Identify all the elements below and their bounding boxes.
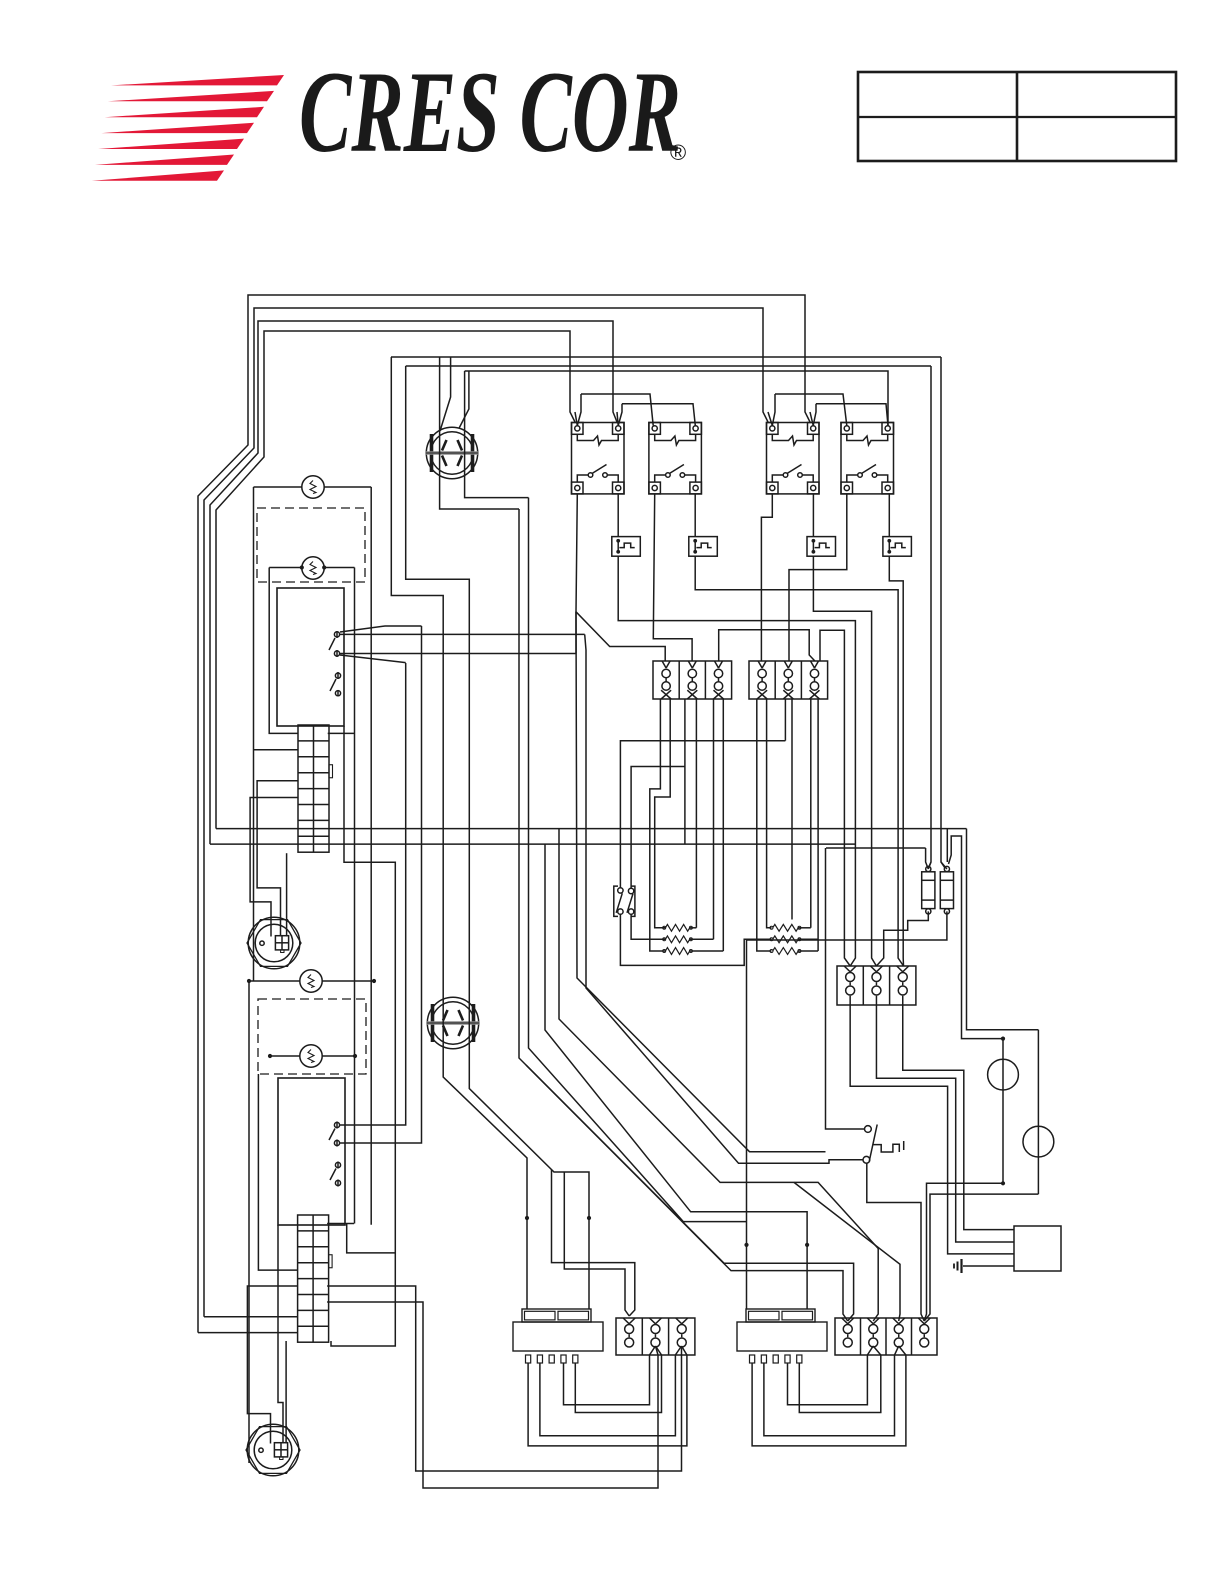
wire K2 right jogs — [327, 1223, 354, 1225]
wire SB1 bottom-left to TB1-1 — [576, 494, 665, 661]
switch block SB3 — [767, 423, 820, 494]
indicator light L4 — [300, 1045, 322, 1067]
wire diagonal D to heater2 right — [545, 844, 807, 1309]
wire SB3 right-bottom to HL3 — [812, 494, 814, 537]
wire SW1 bottom-right to R2 — [631, 914, 665, 939]
wire K2 to J2-1 — [247, 1286, 297, 1444]
relay stack K2 (lower) — [298, 1215, 329, 1342]
wire W6 right leg to fuse F1 — [928, 366, 931, 868]
wire W6 left leg through M2 to heater1 — [406, 366, 589, 1309]
wire K2 left stubs — [204, 1316, 298, 1318]
wire K1 bottom to J1-3 — [286, 853, 288, 936]
wire TB2-3 to TS1-1 — [820, 630, 850, 966]
wire TB1-3 to TB2-3 — [719, 630, 815, 661]
resistor R4 — [773, 924, 799, 931]
wire R6 right lead — [798, 950, 818, 952]
buzzer symbol — [963, 1265, 1014, 1267]
wire K1 row5 left stub to J1-1 — [250, 798, 298, 937]
wire SB2 right-bottom to HL2 — [694, 494, 696, 537]
thermostat oven1 contact 2 — [334, 651, 339, 656]
wire TB2-3 left tail — [810, 699, 812, 928]
door switch DS — [865, 1126, 872, 1133]
dashed control box oven1 — [257, 508, 365, 582]
wire TB1-3 left tail — [713, 699, 715, 939]
wire oven2 left side — [248, 981, 250, 1463]
wire R5 right lead — [798, 938, 818, 940]
indicator lamp P1 — [988, 1059, 1019, 1090]
wire TB2-1 right tail — [767, 699, 772, 928]
wire oven2 top line — [249, 980, 300, 982]
wire diagonal G to TS2b-1 — [526, 1065, 848, 1321]
wire cross vertical A — [340, 626, 422, 1143]
wire SB3-SB4 jumper top-right — [816, 404, 888, 426]
wire M1 top-right lead — [459, 371, 469, 429]
wire SB2 bottom-left to TB1-2 — [653, 494, 692, 661]
wire thermo1 c2 to vertical — [340, 655, 406, 663]
wire through P1 — [1002, 1039, 1004, 1184]
wire P1 bottom to TS2b-4 — [924, 1183, 1003, 1321]
wire H2 loop sq4 to TS2b-2 — [788, 1346, 874, 1405]
wire R4 right lead — [798, 927, 811, 929]
wire diagonal A to door switch top — [576, 612, 826, 1152]
resistor R3 — [665, 948, 689, 955]
thermostat body oven2 — [278, 1078, 345, 1225]
wire W5 right leg to fuse F2 — [941, 357, 945, 868]
wire oven1 right side — [370, 487, 372, 1225]
wire bus W4 — [216, 331, 575, 829]
thermostat oven2 contact 4 — [335, 1180, 340, 1185]
terminal strip TS2a — [616, 1318, 695, 1355]
wire H2 loop sq1 to TS2b-3 — [752, 1346, 906, 1446]
round connector J1 (upper) — [247, 920, 301, 967]
wire lamp P1 feed — [949, 836, 1004, 1039]
wire SB1 bottom-left tail — [575, 612, 577, 654]
wire R2 right lead — [690, 938, 714, 940]
wire SB4 right-bottom to HL4 — [888, 494, 890, 537]
fuse F1 — [922, 872, 935, 909]
wire diagonal F to TS2b-1 — [519, 509, 854, 1321]
wire F1 feed from left — [826, 847, 926, 849]
wire K1 row2 left stub — [254, 749, 299, 751]
wire DS bottom to TS2b-4 — [867, 1163, 924, 1321]
wire F1 bottom to TS1-2 — [876, 911, 928, 966]
fan motor M2 (lower blower) — [427, 997, 478, 1048]
wire bus W6 — [406, 365, 931, 367]
wire through P2 — [1037, 1030, 1039, 1194]
wire TB1-1 left tail — [650, 699, 666, 951]
wire long run W3 right — [210, 843, 855, 845]
thermostat oven1 contact 1 — [334, 632, 339, 637]
wire L2 leads — [269, 567, 302, 569]
dashed control box oven2 — [258, 999, 366, 1074]
wire oven1 top line — [254, 486, 302, 488]
wire long run W4 right — [216, 828, 967, 830]
thermostat body oven1 — [277, 588, 344, 726]
wire SB1-SB2 jumper top-right — [622, 404, 695, 426]
wire diagonal E — [529, 498, 747, 1222]
wire F2 top chevron — [941, 862, 947, 869]
heater transformer H1 — [522, 1309, 591, 1322]
switch block SB4 — [841, 423, 894, 494]
wire L2 right to K2 — [354, 568, 356, 1224]
fuse F2 — [940, 872, 953, 909]
wire K1 row1 left stub — [269, 568, 298, 734]
svg-text:®: ® — [670, 140, 686, 165]
wire bus W1 — [198, 295, 810, 1333]
wire L4 leads — [270, 1055, 300, 1057]
wire HL4 to TS1-3 — [889, 556, 903, 966]
wire F1 top chevron — [928, 862, 931, 869]
wire K2 to J2-3 — [285, 1341, 287, 1444]
wire SW1 top-left to TB2 — [620, 741, 785, 888]
svg-text:CRES COR: CRES COR — [299, 48, 681, 177]
thermostat oven1 contact 3 — [335, 673, 340, 678]
wire thermo1 c1 to vertical — [340, 626, 422, 632]
wire SB4 top-right from W7 — [887, 412, 889, 426]
title block table — [858, 72, 1176, 161]
wire TS1-2 to control box — [876, 1005, 1014, 1242]
Cres Cor logo red speed stripes — [111, 75, 284, 85]
DPST switch SW1 — [614, 886, 618, 916]
wire W5 to fan feed — [440, 357, 519, 509]
thermostat oven2 contact 1 — [334, 1122, 339, 1127]
wire H1 loop sq5 to TS2a-2 — [575, 1346, 661, 1413]
wire TB1-2 right tail — [695, 699, 697, 928]
wire H1 long run 2 — [423, 1336, 658, 1488]
wire H1 long run 1 — [416, 1319, 682, 1471]
wire H1 loop sq1 to TS2a-3 — [528, 1346, 687, 1446]
switch block SB1 — [572, 423, 625, 494]
wire W7 to diagonal B2 — [465, 371, 529, 498]
wire K2 to J2-2 — [278, 1225, 283, 1444]
wire P2 bottom to TS2b-4 — [924, 1194, 1038, 1321]
indicator light L1 — [302, 476, 324, 498]
indicator light L2 — [302, 557, 324, 579]
wire W5 left leg through M2 to heater1 — [391, 357, 527, 1309]
indicator lamp P2 — [1023, 1126, 1054, 1157]
wire HL2 to TS1-3 — [695, 556, 903, 966]
wire diagonal B to door switch bottom — [585, 634, 863, 1163]
wire R3 right lead — [690, 950, 724, 952]
terminal strip TS1 — [837, 966, 916, 1005]
indicator light L3 — [300, 970, 322, 992]
wire TS1-3 to control box — [903, 1005, 1014, 1230]
thermostat oven1 contact 4 — [335, 691, 340, 696]
switch block SB2 — [649, 423, 702, 494]
control box CB — [1014, 1226, 1061, 1271]
wire R1 right lead — [690, 927, 697, 929]
wire thermo1 c2 bus right — [340, 653, 576, 655]
wire F2 bottom long run — [747, 911, 947, 1309]
wire M1 top-left lead — [440, 357, 451, 431]
wire SB3-SB4 jumper top-left — [775, 394, 847, 426]
wire cross vertical B — [340, 663, 406, 1125]
wire SB1 right-bottom to HL1 — [617, 494, 619, 537]
resistor R5 — [773, 936, 799, 943]
wire thermo1 c1 bus right — [340, 633, 585, 635]
hi-limit thermostat HL1 — [612, 537, 641, 557]
hi-limit thermostat HL3 — [807, 537, 836, 557]
wire SB1 top chevrons — [575, 412, 577, 426]
wire box side extension — [331, 726, 395, 1346]
wire TB2-1 left tail — [757, 699, 772, 951]
relay stack K1 (upper) — [298, 725, 329, 852]
wire TB1-1 right tail — [655, 699, 671, 928]
wire TS1-1 to control box — [850, 1005, 1014, 1254]
wire oven1 left side — [253, 487, 255, 981]
wire TS2a-1 feed left — [564, 1172, 629, 1316]
wire H2 loop sq2 to TS2b-3 — [764, 1346, 899, 1436]
wire H1 loop sq4 to TS2a-2 — [564, 1346, 656, 1405]
wire bus W2 — [204, 308, 768, 1317]
thermostat oven2 contact 3 — [335, 1162, 340, 1167]
terminal block TB1 — [653, 661, 732, 699]
resistor R2 — [665, 936, 689, 943]
round connector J2 (lower) — [246, 1427, 300, 1474]
resistor R1 — [665, 924, 689, 931]
hi-limit thermostat HL4 — [883, 537, 912, 557]
wire H2 loop sq5 to TS2b-2 — [799, 1346, 881, 1413]
hi-limit thermostat HL2 — [689, 537, 718, 557]
wire HL3 to TS1-2 — [813, 556, 876, 966]
wire diagonal C branch to TS2b-3 — [794, 1182, 900, 1321]
wire SW1 bottom-left to R5 — [620, 914, 771, 965]
wire K2 row4 left stub — [258, 1074, 297, 1270]
wire bus W3 — [210, 321, 617, 844]
wire SB3 bottom-left to TB2-1 — [761, 494, 772, 661]
wire SW1 top-right to TB1 — [631, 767, 685, 889]
wire diagonal C to TS2b-2 — [559, 829, 878, 1321]
terminal strip TS2b — [835, 1318, 937, 1355]
wire bus W7 — [465, 371, 888, 412]
wire SB3 top chevrons — [768, 412, 772, 426]
fan motor M1 (upper blower) — [426, 427, 477, 478]
wire bus W5 — [391, 356, 941, 358]
wire TB2-3 right tail — [817, 699, 819, 951]
wire TB2-2 left tail — [784, 699, 786, 741]
wire H1 loop sq2 to TS2a-3 — [540, 1346, 682, 1436]
wire TS2a-1 feed right — [552, 1170, 635, 1316]
terminal block TB2 — [749, 661, 828, 699]
resistor R6 — [773, 948, 799, 955]
wire TB1-3 right tail — [722, 699, 724, 951]
wire TB2-2 right tail — [791, 699, 793, 920]
wire HL1 to TS1-1 — [618, 556, 855, 966]
wire TB1-2 left tail — [684, 699, 686, 844]
heater transformer H2 — [746, 1309, 815, 1322]
wire K1 row1 right stub — [328, 732, 355, 734]
wire SB4 bottom-left to TB2-2 — [789, 494, 847, 661]
wire SB1-SB2 jumper top-left — [581, 394, 653, 426]
wire door switch feed — [826, 848, 865, 1129]
wire lamp P2 feed — [946, 829, 948, 862]
thermostat oven2 contact 2 — [334, 1140, 339, 1145]
wire K1 row4 left stub to J1-2 — [257, 781, 298, 937]
